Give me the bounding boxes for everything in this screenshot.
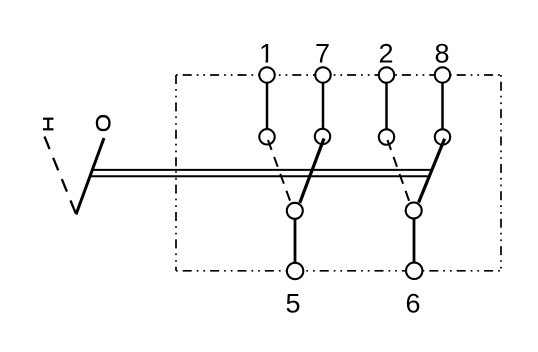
mechanical linkage double line upper bbox=[92, 169, 431, 171]
pole contact circle above terminal 5 bbox=[287, 203, 303, 219]
enclosure dash-dot box right edge bbox=[500, 75, 502, 271]
pole contact circle above terminal 6 bbox=[406, 203, 422, 219]
dashed moving contact pole 6 to contact 2 (position I) bbox=[388, 140, 410, 202]
wire pole circle to terminal 5 bbox=[294, 211, 297, 271]
enclosure dash-dot box bottom edge bbox=[176, 270, 501, 272]
solid moving contact pole 5 to contact 7 (position 0) bbox=[300, 139, 324, 203]
fixed contact circle below terminal 1 bbox=[259, 129, 274, 144]
wire pole circle to terminal 6 bbox=[413, 211, 416, 271]
svg-text:2: 2 bbox=[378, 39, 393, 69]
svg-text:6: 6 bbox=[405, 289, 420, 319]
terminal circle 7 bbox=[315, 67, 330, 82]
terminal circle 8 bbox=[435, 67, 450, 82]
terminal circle 1 bbox=[259, 67, 274, 82]
enclosure dash-dot box top edge bbox=[176, 74, 501, 76]
fixed contact circle below terminal 2 bbox=[379, 129, 394, 144]
terminal circle 6 bbox=[406, 263, 422, 279]
svg-text:1: 1 bbox=[259, 39, 274, 69]
enclosure dash-dot box left edge bbox=[175, 75, 177, 271]
wire terminal 7 to contact bbox=[322, 75, 325, 137]
solid moving contact pole 6 to contact 8 (position 0) bbox=[419, 139, 445, 203]
terminal circle 5 bbox=[287, 263, 303, 279]
actuator position I dashed arm bbox=[45, 137, 77, 215]
dashed moving contact pole 5 to contact 1 (position I) bbox=[268, 140, 291, 202]
mechanical linkage double line lower bbox=[90, 175, 428, 177]
svg-text:5: 5 bbox=[285, 289, 300, 319]
terminal circle 2 bbox=[379, 67, 394, 82]
wire terminal 8 to contact bbox=[441, 75, 444, 137]
label position 0 bbox=[97, 116, 109, 130]
actuator position 0 solid arm bbox=[76, 138, 104, 215]
svg-text:7: 7 bbox=[315, 39, 330, 69]
wire terminal 2 to contact bbox=[385, 75, 388, 137]
fixed contact circle below terminal 7 bbox=[315, 129, 330, 144]
wire terminal 1 to contact bbox=[266, 75, 269, 137]
fixed contact circle below terminal 8 bbox=[435, 129, 450, 144]
label position I bbox=[43, 118, 53, 130]
svg-text:8: 8 bbox=[434, 39, 449, 69]
